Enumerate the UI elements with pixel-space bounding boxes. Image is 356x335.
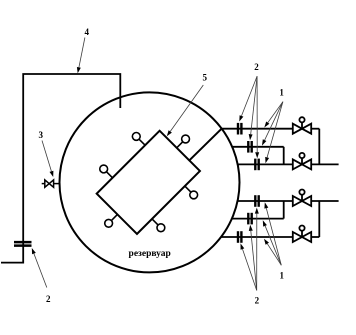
svg-text:2: 2 [254, 62, 259, 72]
svg-text:3: 3 [38, 130, 43, 140]
svg-text:резервуар: резервуар [129, 249, 171, 259]
svg-text:5: 5 [202, 73, 207, 83]
svg-text:1: 1 [279, 271, 284, 281]
svg-text:4: 4 [84, 27, 89, 37]
svg-text:2: 2 [46, 294, 51, 304]
svg-text:2: 2 [255, 296, 260, 306]
svg-text:1: 1 [279, 87, 284, 97]
